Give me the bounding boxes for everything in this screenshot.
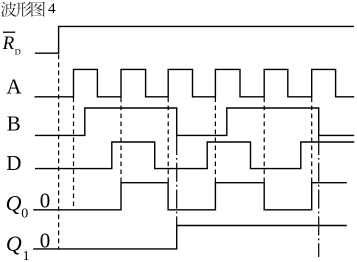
svg-text:B: B [7,112,21,136]
svg-text:D: D [6,151,21,175]
svg-text:D: D [15,47,21,57]
svg-text:Q: Q [6,190,22,215]
svg-text:A: A [6,75,22,99]
svg-text:0: 0 [21,207,28,222]
svg-text:Q: Q [6,231,22,256]
svg-text:0: 0 [40,188,51,212]
svg-text:1: 1 [23,249,30,262]
svg-text:4: 4 [48,0,56,17]
svg-text:R: R [2,33,15,54]
